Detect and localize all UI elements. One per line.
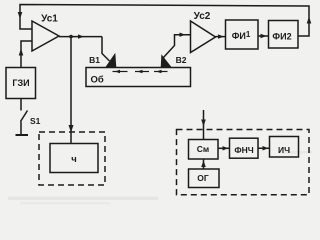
svg-text:ОГ: ОГ <box>197 173 209 183</box>
svg-text:Ус1: Ус1 <box>41 14 58 25</box>
svg-text:ФИ2: ФИ2 <box>272 32 291 42</box>
svg-text:ч: ч <box>71 154 77 165</box>
svg-text:Об: Об <box>91 75 104 86</box>
svg-text:См: См <box>197 144 209 154</box>
svg-text:ГЗИ: ГЗИ <box>12 78 29 88</box>
svg-text:S1: S1 <box>30 116 41 126</box>
svg-text:В2: В2 <box>176 55 187 65</box>
svg-text:ФНЧ: ФНЧ <box>234 145 253 155</box>
svg-text:ИЧ: ИЧ <box>278 145 290 155</box>
svg-text:Ус2: Ус2 <box>194 11 211 22</box>
svg-text:В1: В1 <box>89 55 100 65</box>
